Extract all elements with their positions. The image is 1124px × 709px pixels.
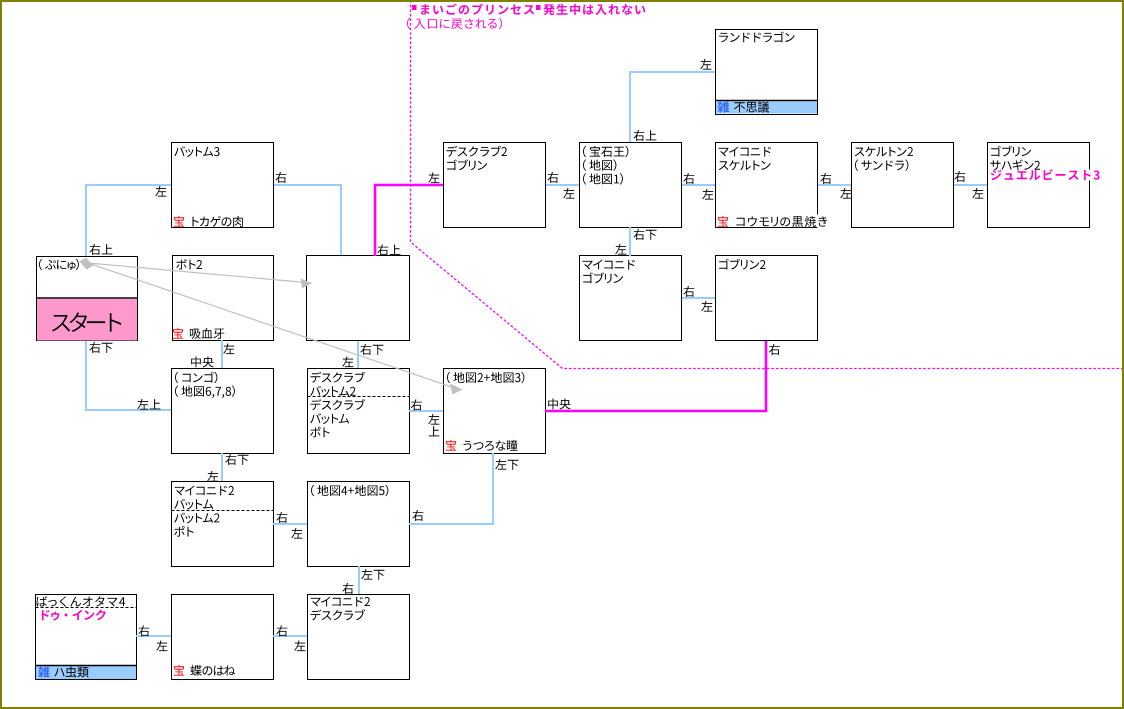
wire 無名箱右上-デスクラブ2左 (magenta) — [375, 185, 443, 256]
box ボト2 — [173, 256, 274, 341]
text デスクラブ2 — [447, 146, 508, 157]
wire スケルトン2右-ゴブリン左 — [954, 184, 987, 186]
text ランドドラゴン — [719, 32, 794, 43]
text label 右 c2 — [275, 172, 286, 183]
text 地図45 — [311, 485, 388, 497]
text label 右 c5 — [820, 173, 831, 184]
text label 左 c3 — [563, 188, 574, 199]
text label 右下 c11 — [89, 342, 112, 353]
text ボト2 — [176, 259, 202, 269]
box マイコニド/ゴブリン — [580, 256, 682, 341]
box ばっくんオタマ4 / ハ虫類 — [36, 595, 137, 680]
wire ボト2左-コンゴ中央 — [221, 340, 223, 368]
box (コンゴ) — [172, 369, 274, 454]
wire デスクラブ2右-宝石王左 — [546, 184, 579, 186]
text label 上 c13 — [429, 426, 440, 436]
wire バットム3右-無名箱上 — [274, 185, 341, 255]
text ゴブリンa — [447, 159, 487, 170]
box 蝶のはね — [172, 595, 274, 680]
wire 地図23左下-地図45右 — [409, 453, 493, 524]
text ポトa — [310, 427, 330, 438]
text label 中央 c10 — [191, 356, 214, 367]
text 地図23 — [447, 372, 524, 384]
text バットム3 — [174, 146, 219, 157]
text うつろな瞳 — [464, 440, 518, 451]
text label 右上 c1 — [89, 244, 112, 255]
wire 矢印 ぷにゅ-無名箱 (gray) — [88, 263, 306, 283]
text label 右 c15 — [276, 512, 287, 523]
text label 左 c5 — [840, 188, 851, 199]
text label 左 c8 — [615, 244, 626, 255]
text 宝4 — [446, 440, 456, 451]
text ゴブリン2 — [719, 259, 765, 270]
text label 右 m2 — [769, 344, 780, 355]
text 宝5 — [174, 665, 184, 676]
wire マイコニド右-スケルトン2左 — [818, 184, 851, 186]
box ゴブリン/サハギン2 — [988, 143, 1090, 228]
text 雑1 — [718, 101, 730, 112]
text label 左 c7 — [700, 59, 711, 70]
text スケルトン2 — [855, 147, 913, 157]
text デスクラブc — [311, 399, 366, 410]
text 注意書き1 — [412, 4, 645, 16]
text マイコニド2a — [175, 486, 234, 496]
wire マイコニドゴブリン右-ゴブリン2左 — [682, 297, 715, 299]
text マイコニドb — [583, 260, 635, 270]
text label 右 c13 — [411, 399, 422, 410]
text label 左 c4 — [702, 189, 713, 200]
text ゴブリンb — [991, 146, 1031, 157]
text 宝石王 — [583, 146, 628, 158]
wire ゴブリン2右-地図23中央 (magenta) — [545, 341, 766, 411]
box マイコニド2/バットム — [172, 482, 274, 567]
text label 右上 c7 — [633, 130, 656, 141]
text コンゴ — [175, 372, 217, 384]
wire 地図45左下-マイコニド2デスクラブ右 — [358, 566, 360, 594]
text label 右 c18 — [138, 625, 149, 636]
box ランドドラゴン / 不思議 — [716, 30, 818, 115]
box デスクラブ/バットム2 — [308, 369, 410, 454]
wire 無名箱右下-デスクラブ左 — [357, 341, 359, 368]
text 宝2 — [718, 216, 728, 227]
wire 宝石王右上-ランドドラゴン左 — [630, 72, 715, 142]
wire スタート右下-コンゴ左上 — [86, 341, 171, 410]
text 地図678 — [175, 385, 235, 398]
text label 左 c15 — [291, 528, 302, 539]
text 注意書き2 — [407, 18, 502, 30]
text label 右上 m1 — [377, 244, 400, 255]
text ゴブリンc — [583, 272, 623, 283]
text デスクラブb — [311, 372, 366, 383]
patch ジュエルoverflow — [1089, 170, 1099, 181]
text バットム2b — [174, 513, 219, 524]
wire マイコニド2右-地図45左 — [273, 523, 307, 525]
text トカゲの肉 — [192, 216, 242, 227]
text label 右 c6 — [954, 171, 965, 182]
text label 右下 c8 — [633, 229, 656, 240]
wire ばっくんオタマ右-蝶のはね箱左 — [136, 635, 171, 637]
text label 左 c9 — [701, 301, 712, 312]
box 無名 (empty) — [307, 256, 410, 341]
text label 右 c9 — [683, 286, 694, 297]
box (地図4+地図5) — [308, 482, 410, 567]
text コウモリの黒焼き — [736, 216, 827, 227]
text 宝1 — [174, 216, 184, 227]
wire スタート右上-バットム3左 — [86, 185, 171, 256]
text サンドラ — [855, 159, 908, 171]
text スケルトンa — [719, 160, 771, 170]
text label 左 c10 — [223, 343, 234, 354]
box デスクラブ2/ゴブリン — [444, 143, 546, 228]
text label 左下 c17 — [361, 569, 384, 580]
text label 左 c18 — [156, 640, 167, 651]
box バットム3 — [172, 143, 274, 228]
text サハギン2 — [990, 160, 1040, 171]
矢尻 ぷにゅ側 (gray) — [80, 258, 94, 270]
wire デスクラブ右-地図23左上 — [409, 410, 443, 412]
wire 宝石王右-マイコニド左 — [682, 184, 715, 186]
text label 左 m1 — [428, 172, 439, 183]
text label 中央 m2 — [548, 398, 571, 409]
text ポトb — [174, 526, 194, 537]
text label 左上 c11 — [137, 399, 160, 410]
text バットムa — [310, 413, 349, 424]
text 宝3 — [173, 328, 183, 339]
text ドゥインク — [42, 610, 106, 621]
text バットムb — [174, 499, 213, 510]
wire 矢印 ぷにゅ-地図23 (gray) — [88, 263, 456, 389]
box (宝石王) — [580, 143, 682, 228]
text label 右 c4 — [683, 173, 694, 184]
text 雑2 — [38, 666, 50, 677]
text label 右 c19 — [276, 625, 287, 636]
wire 蝶のはね箱右-マイコニド2デスクラブ左 — [273, 635, 307, 637]
text label 右 c3 — [547, 172, 558, 183]
text 蝶のはね — [191, 665, 236, 676]
text label 左 c6 — [972, 188, 983, 199]
box (地図2+地図3) — [444, 369, 546, 454]
text label 左 c19 — [294, 640, 305, 651]
patch 黒焼きoverflow — [817, 215, 835, 228]
text label 左 c1 — [155, 186, 166, 197]
text ハ虫類 — [54, 666, 88, 677]
box ゴブリン2 — [716, 256, 818, 341]
box スケルトン2 — [852, 143, 954, 228]
box マイコニド/スケルトン — [716, 143, 818, 228]
text label 右 c17 — [342, 583, 353, 594]
text ぷにゅ — [39, 259, 79, 271]
text ばっくんオタマ4 — [37, 596, 126, 607]
text 地図 — [583, 159, 616, 171]
box マイコニド2/デスクラブ — [308, 595, 410, 680]
wire 立入禁止境界線 (magenta dotted) — [411, 0, 1123, 369]
text 不思議 — [734, 101, 769, 112]
text label 左 c13 — [428, 414, 439, 425]
text 地図1 — [583, 173, 623, 185]
text マイコニドa — [719, 147, 771, 157]
wire コンゴ右下-マイコニド2左 — [221, 453, 223, 481]
text label 左 c14 — [207, 471, 218, 482]
text バットム2a — [310, 386, 355, 397]
text label 左下 c16 — [495, 459, 518, 470]
wire 宝石王右下-マイコニドゴブリン左 — [629, 227, 631, 256]
text マイコニド2b — [311, 597, 370, 607]
box スタート (ぷにゅ) — [37, 257, 138, 341]
text ジュエルビースト3 — [991, 169, 1100, 180]
text デスクラブd — [311, 609, 366, 620]
text label 右下 c12 — [360, 344, 383, 355]
text label 左 c12 — [342, 356, 353, 367]
text 吸血牙 — [190, 328, 225, 339]
text label 右下 c14 — [225, 454, 248, 465]
text label 右 c16 — [412, 510, 423, 521]
text スタート — [52, 312, 122, 332]
